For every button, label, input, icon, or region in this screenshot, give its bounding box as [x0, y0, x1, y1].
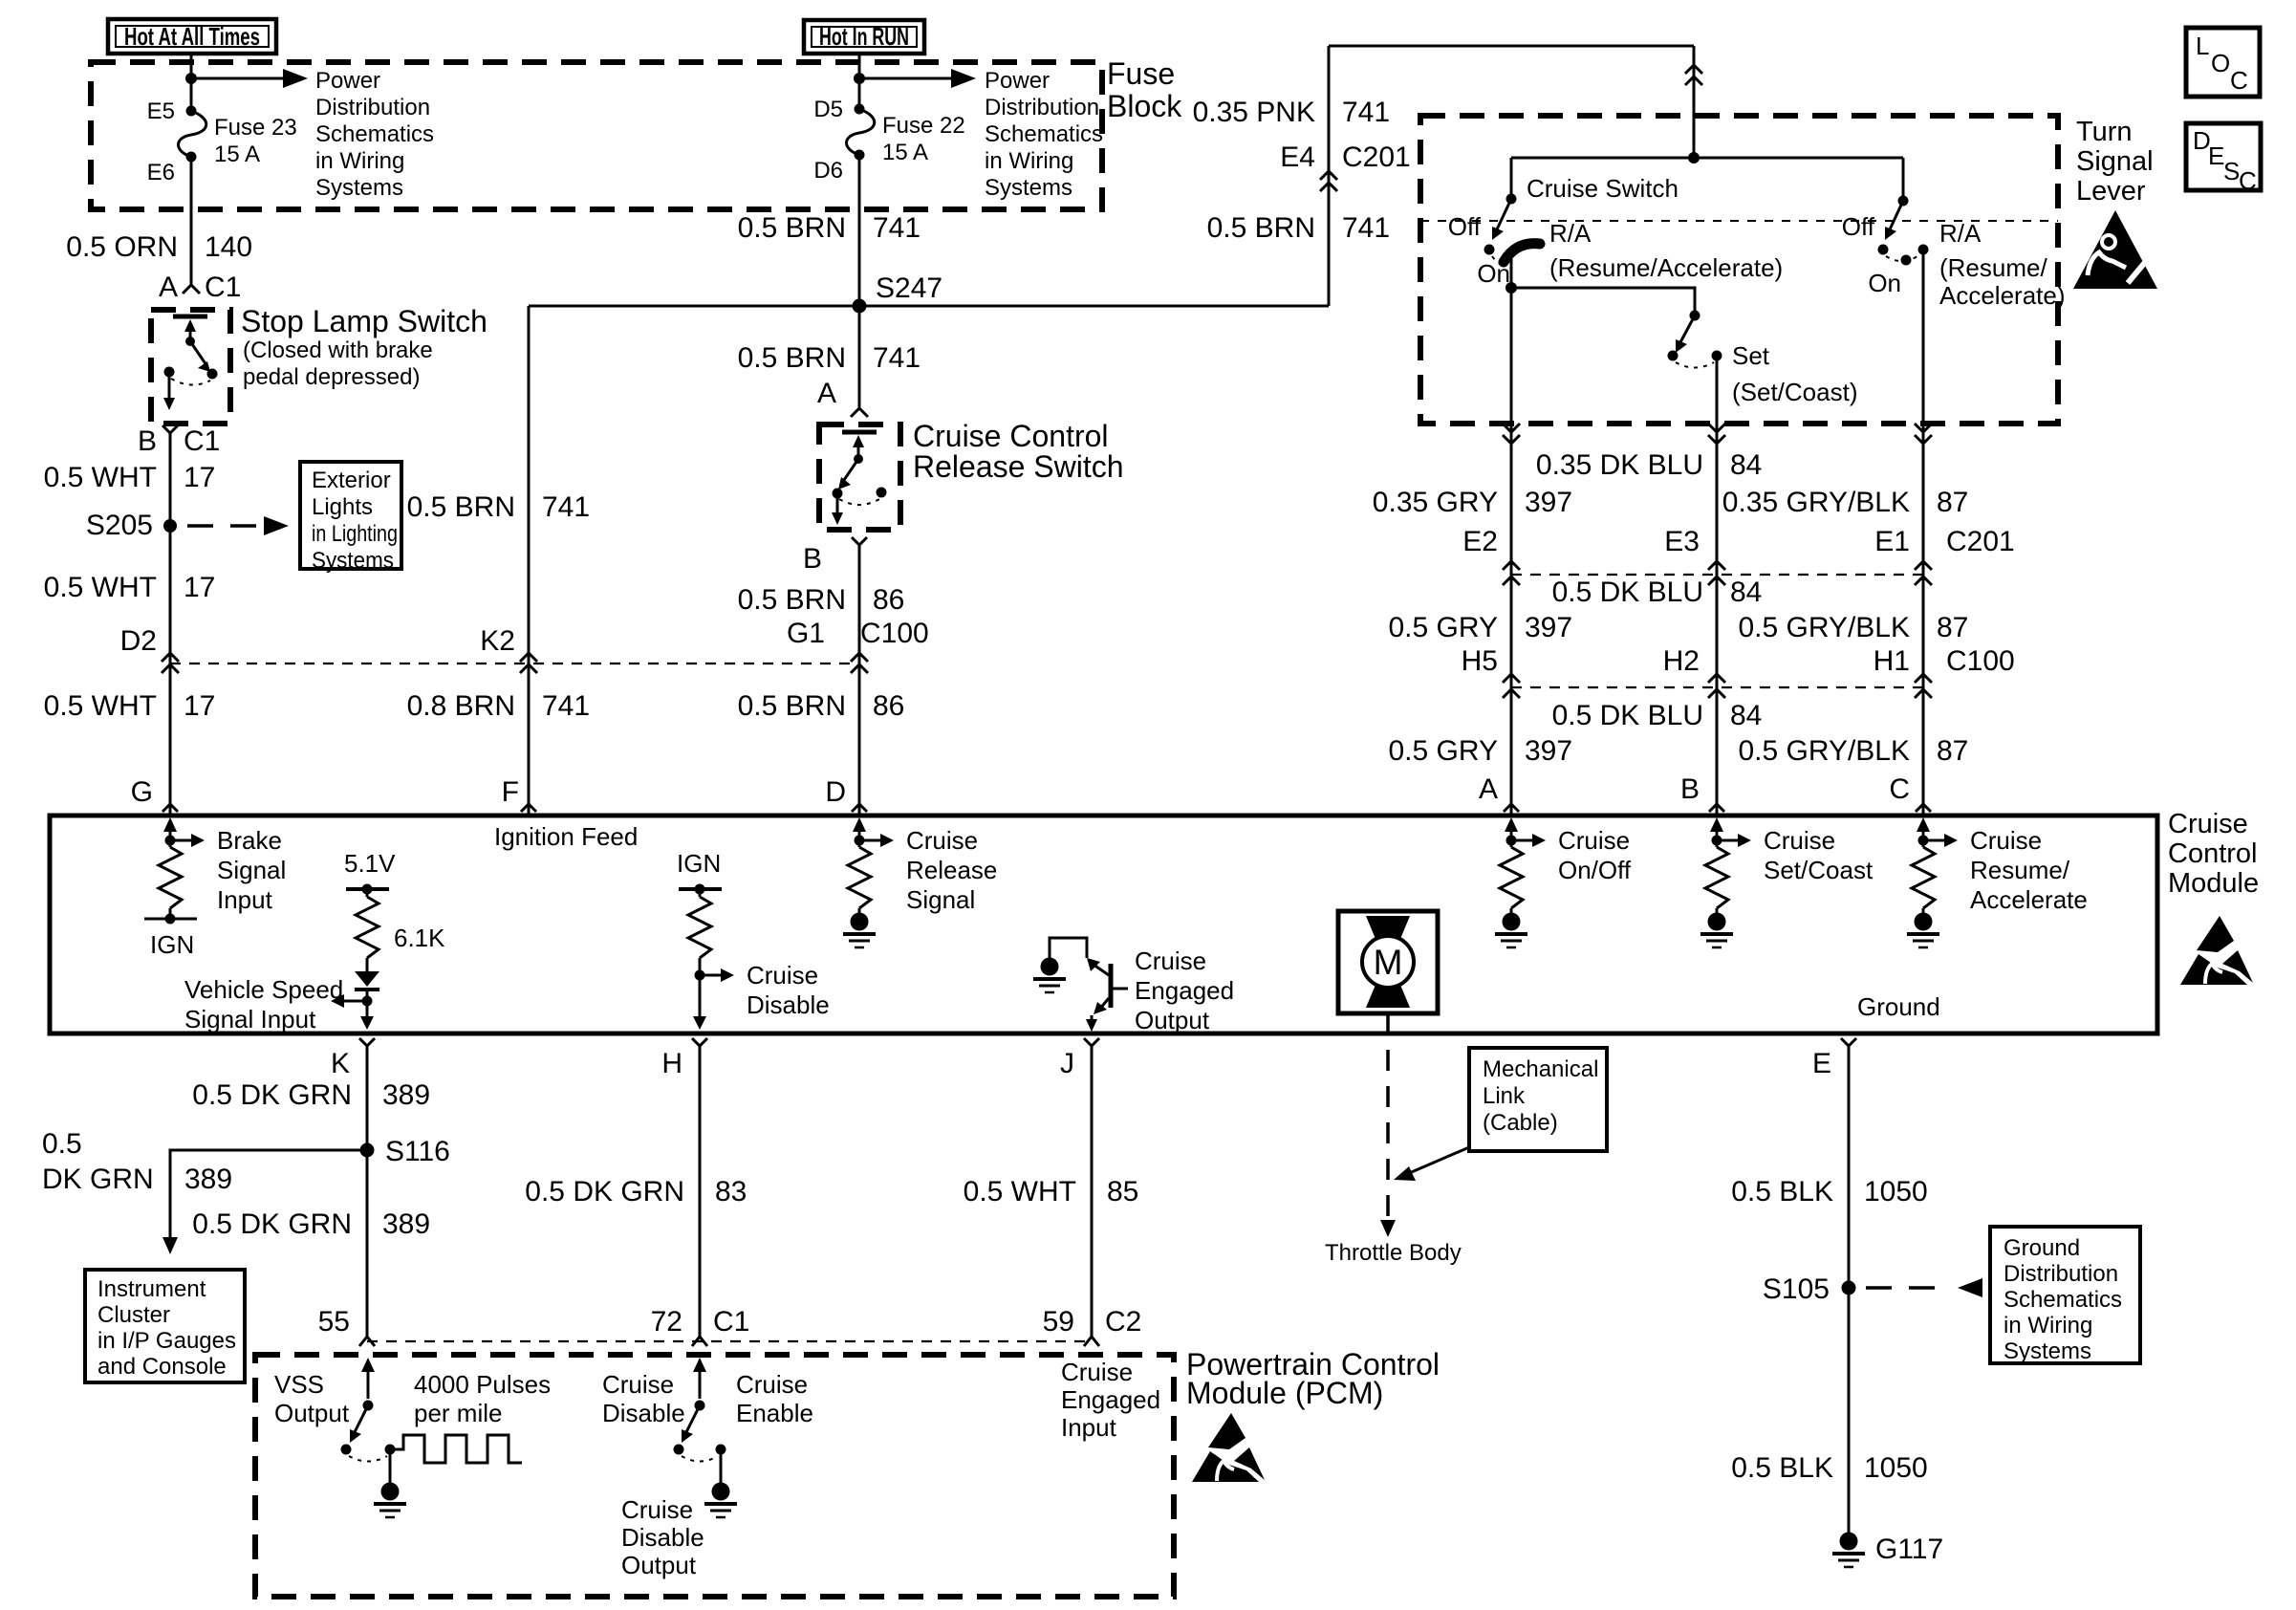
node: cruise disable junction — [693, 958, 830, 1030]
svg-text:0.35 DK BLU: 0.35 DK BLU — [1536, 449, 1703, 481]
svg-text:741: 741 — [1342, 212, 1390, 244]
svg-text:0.5 DK GRN: 0.5 DK GRN — [192, 1079, 352, 1111]
svg-text:0.5 DK GRN: 0.5 DK GRN — [525, 1176, 684, 1207]
svg-text:H: H — [661, 1048, 682, 1079]
wire top run to cruise switch — [1329, 45, 1694, 48]
svg-text:72: 72 — [651, 1306, 682, 1338]
svg-text:Output: Output — [274, 1399, 350, 1427]
svg-text:Control: Control — [2168, 838, 2258, 869]
svg-text:Ground: Ground — [2004, 1235, 2080, 1261]
left pole arm arrow toward Off — [1497, 199, 1511, 229]
dashed reference arrow to exterior lights — [187, 524, 270, 528]
connector chevrons below box (on/off) — [1503, 424, 1520, 432]
svg-text:F: F — [502, 776, 519, 808]
svg-text:H5: H5 — [1462, 645, 1498, 677]
svg-text:Cruise: Cruise — [1061, 1358, 1133, 1386]
turn signal lever dashed box — [1420, 116, 2058, 424]
svg-text:Cruise: Cruise — [602, 1370, 674, 1399]
svg-text:K: K — [331, 1048, 350, 1079]
svg-text:G117: G117 — [1875, 1534, 1943, 1565]
svg-text:741: 741 — [873, 212, 921, 244]
svg-text:C201: C201 — [1946, 526, 2015, 557]
svg-text:(Resume/: (Resume/ — [1939, 253, 2047, 282]
pin B connector C1 below switch — [162, 425, 178, 433]
svg-text:C100: C100 — [1946, 645, 2015, 677]
pointer arrow from mechanical link box to cable — [1407, 1147, 1469, 1174]
svg-text:IGN: IGN — [677, 849, 721, 878]
dotted arc to Set contact — [1676, 362, 1714, 368]
right pole arm arrow toward Off — [1890, 201, 1903, 229]
cruise resume/accelerate input circuit (pin C) — [1917, 817, 2088, 914]
Mechanical Link reference box — [1469, 1048, 1607, 1151]
svg-text:C100: C100 — [860, 618, 929, 649]
svg-text:17: 17 — [184, 572, 215, 603]
switch fixed contact bar — [842, 430, 877, 435]
svg-text:Cruise: Cruise — [1764, 826, 1835, 855]
splice S205 — [163, 519, 177, 533]
ground (cruise enable switch) — [704, 1449, 737, 1517]
svg-text:and Console: and Console — [97, 1354, 227, 1380]
ground (VSS switch) — [374, 1449, 406, 1517]
svg-text:Block: Block — [1107, 89, 1182, 123]
node: vss output junction with left arrow — [362, 996, 373, 1007]
svg-text:R/A: R/A — [1549, 219, 1592, 248]
svg-text:B: B — [803, 543, 822, 575]
svg-text:Systems: Systems — [315, 175, 403, 201]
svg-text:Set/Coast: Set/Coast — [1764, 856, 1874, 884]
svg-text:E: E — [2208, 141, 2224, 170]
fuse F22 terminal D6 — [855, 150, 865, 161]
svg-text:Cruise Switch: Cruise Switch — [1527, 174, 1679, 203]
svg-text:Module (PCM): Module (PCM) — [1186, 1376, 1383, 1410]
wire cruise on/off down — [1510, 424, 1513, 816]
wire 0.5 BRN 741 below S247 — [858, 306, 861, 407]
svg-text:Cluster: Cluster — [97, 1302, 170, 1328]
svg-text:Engaged: Engaged — [1061, 1385, 1160, 1414]
svg-text:(Closed with brake: (Closed with brake — [243, 337, 433, 363]
svg-text:0.35 GRY: 0.35 GRY — [1373, 487, 1498, 518]
svg-text:Hot At All Times: Hot At All Times — [124, 22, 260, 51]
ground (resume/accel) — [1907, 908, 1939, 947]
pin E of cruise control module — [1841, 1038, 1856, 1046]
wire resume/accelerate down — [1922, 424, 1925, 816]
svg-text:Cruise: Cruise — [621, 1495, 693, 1524]
splice S116 — [360, 1143, 375, 1158]
svg-text:pedal depressed): pedal depressed) — [243, 364, 420, 390]
svg-text:Disable: Disable — [621, 1523, 704, 1552]
svg-text:Cruise: Cruise — [736, 1370, 808, 1399]
svg-text:Systems: Systems — [2004, 1338, 2091, 1364]
node: junction of feed with common bus — [1688, 152, 1700, 163]
svg-text:A: A — [817, 378, 836, 409]
svg-text:A: A — [1479, 773, 1498, 805]
connector chevrons on riser — [1685, 65, 1702, 74]
mechanical link dashed cable from motor — [1386, 1013, 1390, 1220]
set arm arrow — [1680, 315, 1695, 342]
svg-text:C2: C2 — [1105, 1306, 1141, 1338]
svg-text:E5: E5 — [147, 98, 175, 124]
set contact left — [1668, 351, 1679, 361]
Instrument Cluster reference box — [85, 1270, 245, 1382]
wire S247 horizontal bus — [529, 305, 1329, 308]
svg-text:0.5 BRN: 0.5 BRN — [1207, 212, 1315, 244]
svg-text:D: D — [825, 776, 846, 808]
svg-text:Brake: Brake — [217, 826, 282, 855]
R/A contact (right pole) — [1918, 245, 1929, 255]
svg-text:Mechanical: Mechanical — [1483, 1056, 1598, 1082]
svg-text:0.5 GRY: 0.5 GRY — [1388, 735, 1498, 767]
svg-text:Ignition Feed: Ignition Feed — [494, 822, 638, 851]
svg-text:B: B — [138, 425, 157, 457]
svg-text:S116: S116 — [385, 1136, 450, 1167]
svg-text:397: 397 — [1525, 487, 1572, 518]
svg-text:H1: H1 — [1874, 645, 1910, 677]
svg-text:0.5 BRN: 0.5 BRN — [738, 342, 846, 374]
svg-text:Off: Off — [1842, 212, 1875, 241]
switch arm arrow to bar — [189, 325, 192, 341]
LOC reference box — [2186, 28, 2260, 97]
svg-text:E1: E1 — [1874, 526, 1910, 557]
svg-text:85: 85 — [1107, 1176, 1138, 1207]
node: junction to set/coast branch — [1505, 282, 1517, 294]
svg-text:55: 55 — [318, 1306, 350, 1338]
svg-text:0.5 DK BLU: 0.5 DK BLU — [1552, 700, 1703, 731]
wire from On contact down — [1510, 253, 1513, 424]
svg-text:(Resume/Accelerate): (Resume/Accelerate) — [1549, 253, 1783, 282]
cruise on/off input circuit (pin A) — [1505, 817, 1632, 884]
4000 pulses square wave signal — [390, 1435, 522, 1463]
svg-text:Cruise Control: Cruise Control — [913, 419, 1109, 453]
vehicle speed signal input circuit (pin K) — [344, 849, 396, 897]
svg-text:C201: C201 — [1342, 141, 1411, 173]
svg-text:S247: S247 — [876, 272, 942, 304]
left pole wire to pivot — [1510, 158, 1513, 199]
svg-text:S105: S105 — [1763, 1273, 1830, 1305]
svg-text:Signal Input: Signal Input — [184, 1005, 316, 1033]
VSS output switch inside PCM — [341, 1358, 396, 1462]
ESD sensitive device symbol (module) — [2180, 916, 2253, 985]
svg-text:87: 87 — [1937, 612, 1968, 643]
svg-text:0.5 WHT: 0.5 WHT — [964, 1176, 1076, 1207]
Hot At All Times label box — [108, 19, 276, 54]
exit arrow down — [836, 498, 839, 516]
svg-text:84: 84 — [1730, 700, 1762, 731]
svg-text:397: 397 — [1525, 612, 1572, 643]
svg-text:87: 87 — [1937, 487, 1968, 518]
svg-text:(Cable): (Cable) — [1483, 1110, 1558, 1136]
vss exit arrow down — [360, 1016, 374, 1030]
svg-text:Instrument: Instrument — [97, 1276, 206, 1302]
svg-text:G: G — [131, 776, 153, 808]
wire from R/A contact down — [1922, 250, 1925, 424]
svg-text:6.1K: 6.1K — [394, 924, 445, 952]
svg-text:Throttle Body: Throttle Body — [1325, 1240, 1462, 1266]
svg-text:C: C — [2239, 166, 2257, 195]
dotted arc with On contact (right pole) — [1886, 254, 1920, 261]
svg-text:C1: C1 — [713, 1306, 749, 1338]
wire drop to cruise switch common — [1693, 46, 1696, 158]
resistor (resume/accel) — [1912, 847, 1935, 908]
svg-text:C: C — [1889, 773, 1910, 805]
ignition feed wire inside module (pin H circuit) — [677, 849, 722, 897]
cruise control module box — [50, 816, 2157, 1033]
svg-text:Link: Link — [1483, 1083, 1526, 1109]
splice S247 — [853, 299, 867, 314]
svg-text:Accelerate: Accelerate — [1970, 885, 2088, 914]
svg-text:E2: E2 — [1462, 526, 1498, 557]
svg-text:Engaged: Engaged — [1135, 976, 1234, 1005]
svg-text:Cruise: Cruise — [2168, 809, 2248, 839]
svg-text:Cruise: Cruise — [1135, 946, 1206, 975]
svg-text:Cruise: Cruise — [747, 961, 818, 990]
pin J of cruise control module — [1084, 1038, 1099, 1046]
switch arm arrow to closed contact — [842, 459, 858, 483]
svg-text:C1: C1 — [205, 272, 241, 303]
svg-text:0.5 WHT: 0.5 WHT — [44, 572, 157, 603]
svg-text:Release Switch: Release Switch — [913, 449, 1124, 484]
resistor 6.1K — [356, 897, 379, 958]
svg-text:On: On — [1477, 259, 1510, 288]
Off contact (right pole) — [1878, 245, 1889, 255]
wire branch to ignition feed pin F — [528, 306, 531, 816]
svg-text:Exterior: Exterior — [312, 468, 391, 493]
svg-text:Fuse: Fuse — [1107, 56, 1175, 91]
svg-text:in I/P Gauges: in I/P Gauges — [97, 1328, 236, 1354]
svg-text:0.5 WHT: 0.5 WHT — [44, 690, 157, 722]
wire 0.35 PNK 741 riser — [1328, 46, 1331, 306]
svg-text:741: 741 — [1342, 97, 1390, 128]
svg-text:0.35 GRY/BLK: 0.35 GRY/BLK — [1722, 487, 1910, 518]
right pole wire to pivot — [1902, 158, 1905, 201]
wire arrow to Power Distribution Schematics — [191, 77, 287, 80]
svg-text:DK GRN: DK GRN — [42, 1164, 154, 1195]
svg-text:Input: Input — [1061, 1413, 1117, 1442]
Ground Distribution reference box — [1990, 1227, 2140, 1364]
svg-text:Schematics: Schematics — [985, 121, 1103, 147]
svg-text:0.35 PNK: 0.35 PNK — [1193, 97, 1315, 128]
svg-text:Set: Set — [1732, 341, 1770, 370]
cruise release signal circuit (pin D) — [853, 817, 997, 914]
svg-text:Hot In RUN: Hot In RUN — [819, 22, 909, 51]
svg-text:in Wiring: in Wiring — [2004, 1313, 2092, 1338]
fuse 22 element — [847, 109, 875, 155]
svg-text:0.5 DK BLU: 0.5 DK BLU — [1552, 577, 1703, 608]
svg-text:0.5 GRY: 0.5 GRY — [1388, 612, 1498, 643]
wire 0.5 BRN 741 from fuse 22 to S247 — [858, 155, 861, 306]
svg-text:Distribution: Distribution — [2004, 1261, 2118, 1287]
svg-text:86: 86 — [873, 584, 904, 616]
svg-text:(Set/Coast): (Set/Coast) — [1732, 378, 1858, 406]
Exterior Lights reference box — [300, 462, 401, 574]
svg-text:S: S — [2223, 157, 2240, 185]
switch contact right — [877, 488, 887, 498]
svg-text:per mile: per mile — [414, 1399, 502, 1427]
exit arrow down — [168, 377, 171, 402]
svg-text:84: 84 — [1730, 577, 1762, 608]
svg-text:Signal: Signal — [217, 856, 286, 884]
pin K of cruise control module — [359, 1038, 375, 1046]
switch contact left — [833, 489, 843, 499]
svg-text:S205: S205 — [86, 510, 153, 541]
svg-text:O: O — [2211, 49, 2230, 77]
svg-text:17: 17 — [184, 690, 215, 722]
svg-text:Accelerate): Accelerate) — [1939, 281, 2066, 310]
svg-text:0.5: 0.5 — [42, 1128, 82, 1160]
dotted travel arc — [839, 499, 879, 505]
svg-text:Signal: Signal — [906, 885, 975, 914]
svg-text:140: 140 — [205, 231, 252, 263]
svg-text:D5: D5 — [813, 97, 843, 122]
pin H of cruise control module — [692, 1038, 707, 1046]
svg-text:389: 389 — [382, 1079, 430, 1111]
svg-text:0.5 DK GRN: 0.5 DK GRN — [192, 1208, 352, 1240]
resistor (cruise release) — [848, 847, 871, 908]
svg-text:0.5 BRN: 0.5 BRN — [738, 690, 846, 722]
svg-text:Power: Power — [985, 68, 1050, 94]
svg-text:0.5 BRN: 0.5 BRN — [738, 584, 846, 616]
svg-text:D2: D2 — [120, 625, 157, 657]
svg-text:R/A: R/A — [1939, 219, 1982, 248]
svg-text:1050: 1050 — [1864, 1176, 1928, 1207]
connector C100 dashed boundary (right) — [1511, 686, 1923, 688]
svg-text:Release: Release — [906, 856, 997, 884]
svg-text:Disable: Disable — [747, 990, 830, 1019]
svg-text:Schematics: Schematics — [2004, 1287, 2122, 1313]
svg-text:Systems: Systems — [985, 175, 1072, 201]
svg-text:0.5 BLK: 0.5 BLK — [1731, 1176, 1833, 1207]
svg-text:Disable: Disable — [602, 1399, 685, 1427]
svg-text:C: C — [2230, 66, 2248, 95]
cruise disable/enable switch inside PCM — [674, 1358, 726, 1462]
cruise set/coast input circuit (pin B) — [1710, 817, 1874, 884]
svg-text:L: L — [2196, 32, 2209, 60]
R/A momentary contact blob — [1504, 244, 1540, 262]
Off contact (left pole) — [1484, 245, 1495, 255]
svg-text:A: A — [159, 272, 178, 303]
svg-text:Off: Off — [1448, 212, 1482, 241]
DESC reference box — [2186, 123, 2261, 195]
wire branch to instrument cluster — [170, 1150, 367, 1239]
svg-text:0.5 BLK: 0.5 BLK — [1731, 1452, 1833, 1484]
svg-text:1050: 1050 — [1864, 1452, 1928, 1484]
svg-text:E4: E4 — [1280, 141, 1315, 173]
svg-text:Cruise: Cruise — [1558, 826, 1630, 855]
svg-text:15 A: 15 A — [882, 140, 928, 165]
svg-text:Vehicle Speed: Vehicle Speed — [184, 975, 343, 1004]
svg-text:Stop Lamp Switch: Stop Lamp Switch — [241, 304, 487, 338]
svg-text:in Lighting: in Lighting — [312, 521, 398, 547]
svg-text:0.5 WHT: 0.5 WHT — [44, 462, 157, 493]
svg-text:M: M — [1374, 943, 1403, 982]
svg-text:Fuse 23: Fuse 23 — [214, 115, 297, 141]
resistor (cruise disable) — [688, 897, 711, 958]
diode (vss) — [355, 958, 379, 1019]
svg-text:E3: E3 — [1664, 526, 1700, 557]
dotted travel arc — [171, 379, 210, 385]
wire from Set contact down — [1716, 356, 1719, 424]
svg-text:Lights: Lights — [312, 494, 373, 520]
svg-text:G1: G1 — [787, 618, 825, 649]
svg-text:VSS: VSS — [274, 1370, 324, 1399]
svg-text:83: 83 — [715, 1176, 747, 1207]
wire from Hot At All Times into fuse block — [190, 54, 193, 111]
svg-text:Output: Output — [1135, 1006, 1210, 1034]
svg-text:B: B — [1680, 773, 1700, 805]
svg-text:87: 87 — [1937, 735, 1968, 767]
fuse 23 element — [179, 111, 206, 157]
switch contact right — [207, 369, 218, 380]
cruise switch common bus — [1511, 157, 1903, 160]
svg-text:17: 17 — [184, 462, 215, 493]
svg-text:Turn: Turn — [2076, 117, 2133, 147]
cruise engaged output transistor (pin J) — [1033, 938, 1234, 1034]
svg-text:84: 84 — [1730, 449, 1762, 481]
svg-text:in Wiring: in Wiring — [985, 148, 1073, 174]
wire 0.5 ORN 140 from fuse to stop lamp switch — [190, 157, 193, 285]
fuse block dashed box — [91, 62, 1102, 209]
node: junction to power distribution arrow — [854, 73, 865, 84]
svg-text:Power: Power — [315, 68, 380, 94]
svg-text:Schematics: Schematics — [315, 121, 434, 147]
svg-text:397: 397 — [1525, 735, 1572, 767]
svg-text:Module: Module — [2168, 868, 2259, 899]
svg-text:D6: D6 — [813, 158, 843, 184]
node: junction to power distribution arrow — [185, 73, 197, 84]
svg-text:Enable: Enable — [736, 1399, 813, 1427]
svg-text:0.5 BRN: 0.5 BRN — [407, 491, 515, 523]
svg-text:Output: Output — [621, 1551, 697, 1579]
svg-text:0.5 GRY/BLK: 0.5 GRY/BLK — [1738, 612, 1910, 643]
dashed reference arrow to ground distribution — [1866, 1286, 1952, 1290]
connector dashed boundary at PCM — [367, 1340, 1094, 1342]
switch arm arrow to bar — [857, 441, 860, 459]
svg-text:86: 86 — [873, 690, 904, 722]
pin B below release switch — [852, 537, 867, 545]
switch fixed contact bar — [173, 315, 207, 319]
svg-text:4000 Pulses: 4000 Pulses — [414, 1370, 551, 1399]
resistor (on/off) — [1500, 847, 1523, 908]
stop lamp switch dashed box — [151, 310, 230, 424]
svg-text:741: 741 — [873, 342, 921, 374]
ground (cruise release) — [843, 908, 876, 947]
brake signal input circuit (pin G) — [163, 817, 286, 914]
svg-text:E6: E6 — [147, 160, 175, 185]
svg-text:Distribution: Distribution — [985, 95, 1099, 120]
svg-text:H2: H2 — [1663, 645, 1700, 677]
ESD sensitive device symbol (PCM) — [1192, 1413, 1265, 1482]
wire set/coast down — [1716, 424, 1719, 816]
svg-text:Signal: Signal — [2076, 146, 2154, 177]
fuse F22 terminal D5 — [855, 104, 865, 115]
mechanical link dashed line — [1420, 220, 2058, 222]
svg-text:15 A: 15 A — [214, 141, 260, 167]
cruise control release switch dashed box — [819, 424, 900, 530]
svg-text:389: 389 — [382, 1208, 430, 1240]
ground (set/coast) — [1700, 908, 1733, 947]
PCM dashed box — [255, 1355, 1174, 1597]
svg-text:59: 59 — [1043, 1306, 1074, 1338]
svg-text:IGN: IGN — [150, 930, 194, 959]
connector C100 dashed boundary (left) — [170, 663, 859, 664]
svg-text:E: E — [1812, 1048, 1831, 1079]
IGN rail (brake signal) — [144, 908, 197, 959]
svg-text:Distribution: Distribution — [315, 95, 430, 120]
ground G117 — [1832, 1533, 1943, 1568]
wire from Hot In RUN into fuse block — [858, 54, 861, 109]
Hot In RUN label box — [804, 20, 924, 54]
wire arrow to Power Distribution Schematics — [859, 77, 955, 80]
svg-text:C1: C1 — [184, 425, 220, 457]
